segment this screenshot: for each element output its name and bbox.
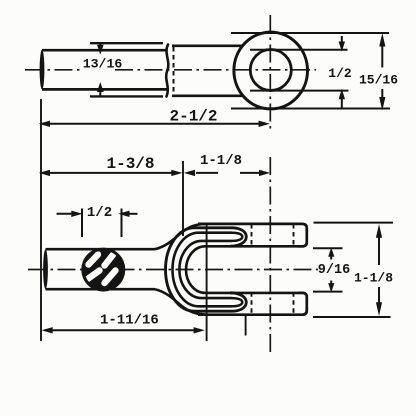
lower rod top edge [46,248,156,251]
svg-text:1/2: 1/2 [87,205,112,221]
dimension 1-3/8 (rod end to slot bottom) [45,172,178,174]
dimension 9/16 (slot width) [313,248,343,291]
fork second U [173,233,232,307]
bottom prong strap cap (outer) [230,293,246,311]
dimension 2-1/2 (overall eye end length) [45,123,263,125]
eye vertical centerline [269,15,271,132]
lower rod centerline (horizontal dash-dot) [28,269,318,271]
rod bottom edge (right of break) [172,94,243,97]
svg-text:1-11/16: 1-11/16 [100,312,159,328]
fork third U (strap inside) [179,241,232,298]
svg-text:2-1/2: 2-1/2 [169,107,217,125]
rod break (S-curve) [166,45,168,97]
dimension 1/2 (eye hole diameter) [250,36,349,109]
top prong strap cap (outer) [230,228,246,246]
fork slot U and slot edges [186,246,304,293]
lower rod bottom edge [46,288,156,291]
eye inner circle (hole) [250,50,291,91]
cap-edge extension stub [245,315,247,336]
rod centerline (horizontal dash-dot) [25,69,316,71]
dimension 1-1/8 (fork outer width) [313,223,393,317]
fork flare bottom [155,289,205,314]
svg-text:1-1/8: 1-1/8 [354,271,393,286]
rod top edge (left of break) [42,49,167,52]
bottom prong outline [198,293,307,315]
eye outer circle [234,32,308,109]
svg-text:1-1/8: 1-1/8 [200,153,242,169]
rod bottom edge (left of break) [42,88,167,91]
hatched rod section circle [81,248,125,292]
jaw-back extension line [206,223,208,341]
svg-text:15/16: 15/16 [359,73,398,88]
dimension 13/16 (rod diameter) [90,43,163,96]
top prong outline [198,224,307,246]
fork outer U (strap outside) [166,228,232,311]
lower rod left end cap [43,249,48,289]
bottom prong strap cap (inner) [232,298,242,306]
svg-text:13/16: 13/16 [83,57,123,72]
svg-text:1/2: 1/2 [328,66,352,81]
slot-bottom extension line [182,161,184,236]
rod break hidden line (dashed) [173,47,175,95]
rod left end cap [40,50,45,90]
fork pin centerline (vertical dash-dot) [269,157,271,352]
svg-text:1-3/8: 1-3/8 [106,155,154,173]
dimension 1-1/8 (slot bottom to pin center) [196,172,259,174]
fork flare top [155,224,205,249]
dimension 15/16 (eye outer diameter) [231,33,390,109]
top prong strap cap (inner) [232,233,242,241]
pin hole hidden lines, top prong [252,224,294,315]
svg-text:9/16: 9/16 [318,263,350,278]
dimension 1/2 (lower rod / section dia) [57,209,138,238]
left extension line (long vertical) [40,99,42,341]
rod top edge (right of break) [172,44,242,47]
dimension 1-11/16 (rod end to jaw back) [45,329,200,331]
